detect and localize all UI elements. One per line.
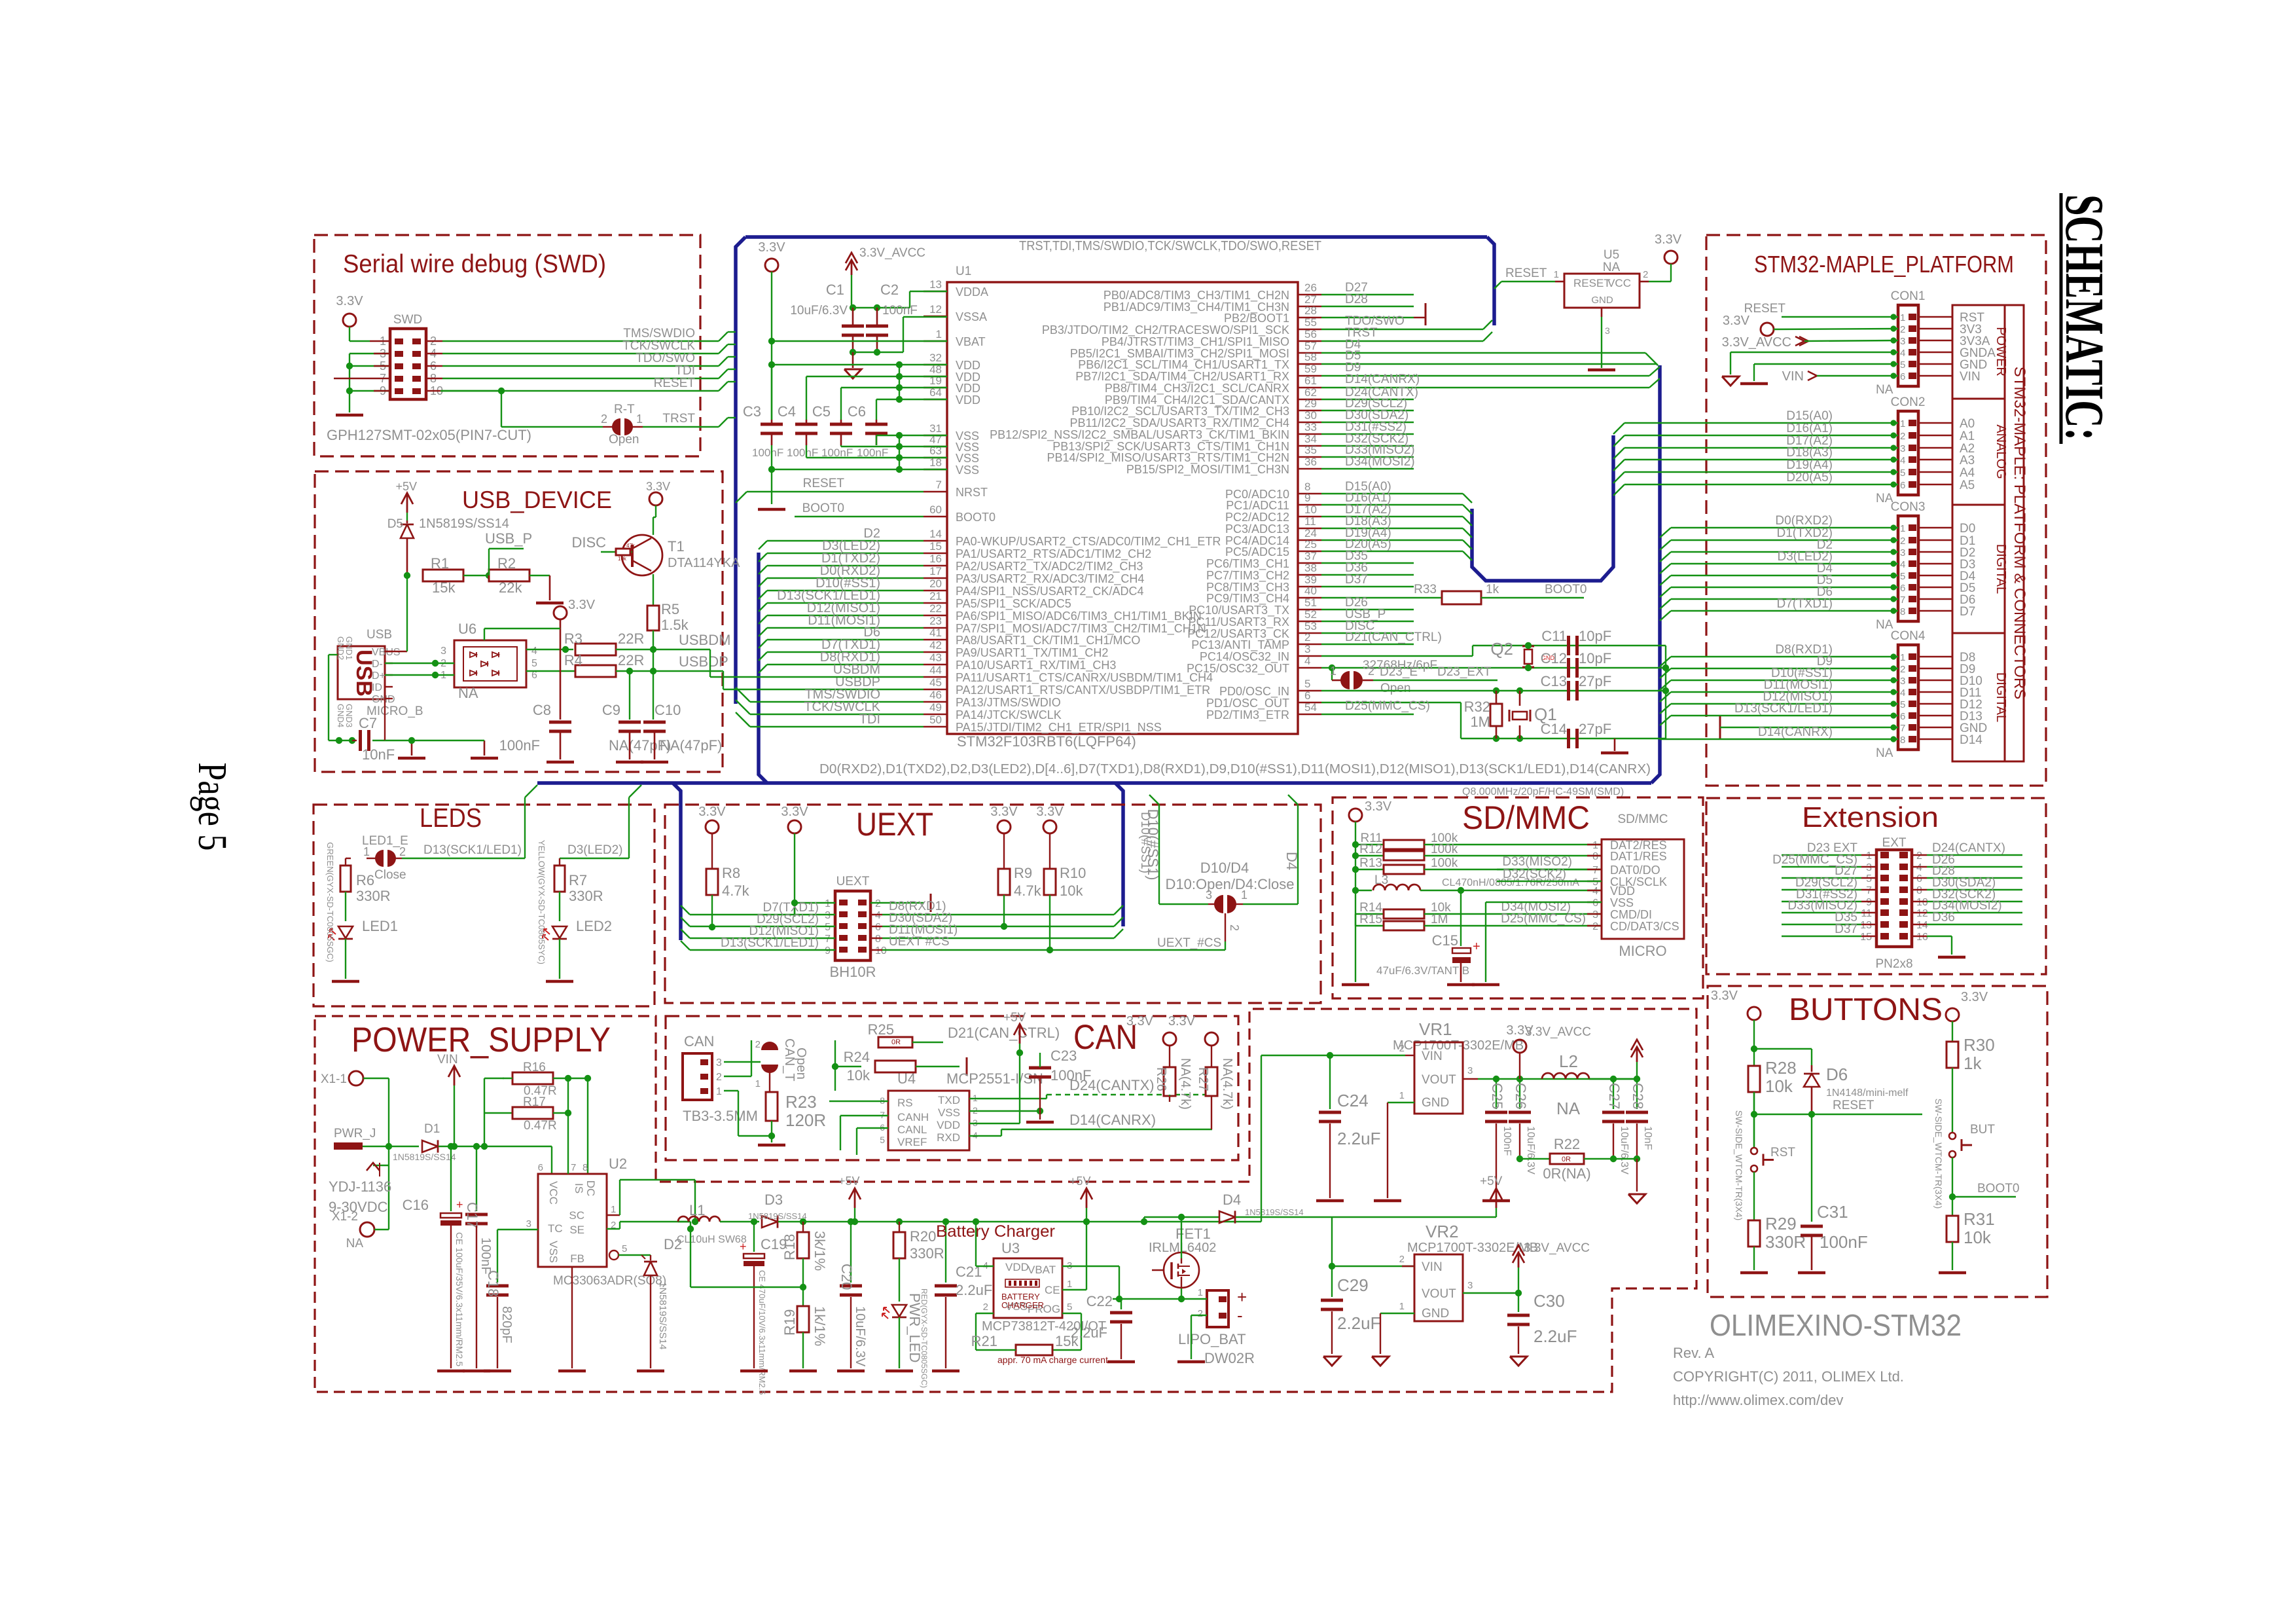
- svg-text:Open: Open: [794, 1048, 808, 1080]
- svg-text:50: 50: [929, 714, 942, 726]
- svg-text:VIN: VIN: [1422, 1049, 1443, 1063]
- svg-text:-: -: [1237, 1305, 1243, 1325]
- svg-text:DISC: DISC: [571, 534, 606, 551]
- svg-text:13: 13: [1860, 920, 1872, 931]
- svg-text:VOUT: VOUT: [1422, 1073, 1456, 1087]
- svg-text:2.2uF: 2.2uF: [956, 1282, 992, 1298]
- svg-text:4: 4: [1900, 455, 1905, 466]
- svg-text:8: 8: [875, 934, 881, 945]
- svg-text:GND2: GND2: [336, 636, 346, 660]
- svg-text:9: 9: [1866, 897, 1872, 908]
- svg-text:10uF/6.3V: 10uF/6.3V: [853, 1306, 867, 1367]
- svg-text:100nF: 100nF: [752, 447, 783, 459]
- svg-text:7: 7: [1900, 723, 1905, 734]
- svg-text:10nF: 10nF: [362, 746, 395, 763]
- svg-text:EXT: EXT: [1882, 836, 1907, 850]
- svg-text:PA6/SPI1_MISO/ADC6/TIM3_CH1/TI: PA6/SPI1_MISO/ADC6/TIM3_CH1/TIM1_BKIN: [956, 610, 1202, 623]
- svg-text:6: 6: [1900, 711, 1905, 722]
- svg-text:DW02R: DW02R: [1204, 1350, 1255, 1366]
- svg-text:BOOT0: BOOT0: [1545, 583, 1587, 596]
- svg-text:PA15/JTDI/TIM2_CH1_ETR/SPI1_NS: PA15/JTDI/TIM2_CH1_ETR/SPI1_NSS: [956, 721, 1162, 735]
- svg-text:Page 5: Page 5: [190, 763, 234, 851]
- svg-text:TDI: TDI: [675, 364, 695, 378]
- svg-text:VDD: VDD: [937, 1119, 960, 1131]
- svg-text:2.2uF: 2.2uF: [1337, 1313, 1381, 1333]
- svg-text:8: 8: [1900, 606, 1905, 617]
- svg-text:U2: U2: [609, 1156, 627, 1172]
- svg-text:PB2/BOOT1: PB2/BOOT1: [1224, 312, 1289, 325]
- svg-text:TMS/SWDIO: TMS/SWDIO: [623, 327, 695, 340]
- svg-text:100nF: 100nF: [499, 737, 540, 754]
- svg-text:VREF: VREF: [897, 1136, 927, 1148]
- svg-text:3: 3: [1304, 643, 1310, 655]
- svg-text:A0: A0: [1960, 417, 1975, 431]
- svg-text:CE: CE: [1045, 1284, 1060, 1296]
- svg-text:10k: 10k: [847, 1067, 870, 1084]
- svg-text:3.3V_AVCC: 3.3V_AVCC: [1525, 1025, 1591, 1039]
- svg-text:2: 2: [1228, 924, 1241, 931]
- svg-text:13: 13: [929, 278, 942, 291]
- svg-text:47k: 47k: [626, 543, 636, 549]
- svg-text:OLIMEXINO-STM32: OLIMEXINO-STM32: [1710, 1308, 1962, 1342]
- svg-text:4: 4: [875, 910, 881, 921]
- svg-text:U4: U4: [897, 1070, 916, 1087]
- svg-text:3.3V: 3.3V: [990, 805, 1018, 819]
- svg-text:32: 32: [929, 352, 942, 364]
- svg-text:1: 1: [825, 898, 831, 909]
- svg-text:VDD: VDD: [956, 393, 980, 407]
- svg-text:D37: D37: [1345, 573, 1368, 587]
- svg-text:29: 29: [1304, 397, 1317, 410]
- svg-text:5: 5: [1304, 678, 1310, 690]
- svg-text:D10:Open/D4:Close: D10:Open/D4:Close: [1166, 876, 1295, 892]
- svg-text:DIGITAL: DIGITAL: [1994, 544, 2008, 594]
- svg-text:VSS: VSS: [956, 464, 979, 477]
- svg-text:1: 1: [755, 1078, 761, 1089]
- svg-text:1M: 1M: [1470, 714, 1490, 730]
- svg-text:10pF: 10pF: [1579, 628, 1611, 644]
- svg-text:D37: D37: [1835, 922, 1857, 936]
- svg-text:SC: SC: [569, 1209, 584, 1222]
- svg-text:5: 5: [880, 1135, 885, 1145]
- svg-text:D16(A1): D16(A1): [1786, 422, 1833, 435]
- svg-text:NRST: NRST: [956, 486, 988, 499]
- svg-text:3: 3: [440, 646, 446, 657]
- svg-text:10: 10: [1916, 897, 1928, 908]
- svg-text:100nF: 100nF: [882, 304, 918, 318]
- svg-text:4: 4: [1304, 655, 1310, 667]
- svg-text:4.7k: 4.7k: [722, 883, 750, 899]
- svg-text:TC: TC: [548, 1222, 563, 1235]
- svg-text:RESET: RESET: [1505, 266, 1547, 280]
- svg-text:A5: A5: [1960, 479, 1975, 492]
- svg-text:PA2/USART2_TX/ADC2/TIM2_CH3: PA2/USART2_TX/ADC2/TIM2_CH3: [956, 560, 1143, 574]
- svg-text:R33: R33: [1414, 583, 1437, 596]
- svg-text:3.3V_AVCC: 3.3V_AVCC: [859, 246, 925, 260]
- svg-text:VCC: VCC: [1607, 277, 1631, 289]
- svg-text:2: 2: [716, 1072, 722, 1083]
- svg-text:43: 43: [929, 651, 942, 664]
- svg-text:52: 52: [1304, 608, 1317, 621]
- svg-text:LED2: LED2: [576, 918, 612, 934]
- svg-text:C4: C4: [778, 403, 796, 420]
- svg-text:STM32-MAPLE_PLATFORM: STM32-MAPLE_PLATFORM: [1754, 251, 2014, 278]
- svg-text:7: 7: [825, 934, 831, 945]
- svg-text:3: 3: [1605, 325, 1610, 336]
- svg-text:16: 16: [1916, 932, 1928, 943]
- svg-text:VCC: VCC: [547, 1181, 560, 1205]
- svg-text:RESET: RESET: [1833, 1099, 1874, 1112]
- svg-text:DTA114YKA: DTA114YKA: [668, 556, 740, 570]
- svg-text:C10: C10: [655, 702, 681, 718]
- svg-text:D32(SCK2): D32(SCK2): [1503, 867, 1566, 881]
- svg-text:PA13/JTMS/SWDIO: PA13/JTMS/SWDIO: [956, 696, 1061, 709]
- svg-text:120R: 120R: [785, 1110, 826, 1130]
- svg-text:4: 4: [1900, 687, 1905, 699]
- svg-text:A1: A1: [1960, 429, 1975, 443]
- svg-text:3.3V: 3.3V: [1365, 799, 1392, 814]
- svg-text:A3: A3: [1960, 454, 1975, 467]
- svg-text:D25(MMC_CS): D25(MMC_CS): [1501, 912, 1586, 926]
- svg-text:PC2/ADC12: PC2/ADC12: [1225, 511, 1289, 524]
- svg-text:D13(SCK1/LED1): D13(SCK1/LED1): [721, 936, 819, 950]
- svg-text:8: 8: [1916, 885, 1922, 896]
- svg-text:10uF/6.3V: 10uF/6.3V: [790, 304, 848, 318]
- svg-text:32768Hz/6pF: 32768Hz/6pF: [1363, 659, 1437, 672]
- svg-text:20: 20: [929, 577, 942, 590]
- svg-text:7: 7: [936, 479, 942, 491]
- svg-text:45: 45: [929, 676, 942, 689]
- svg-text:CANL: CANL: [897, 1123, 927, 1136]
- svg-text:10pF: 10pF: [1579, 650, 1611, 666]
- svg-text:C6: C6: [848, 403, 866, 420]
- svg-text:1: 1: [936, 328, 942, 340]
- svg-text:DIGITAL: DIGITAL: [1994, 672, 2008, 722]
- svg-text:R21: R21: [971, 1333, 997, 1349]
- svg-text:SD/MMC: SD/MMC: [1462, 799, 1590, 836]
- svg-text:D1: D1: [424, 1122, 440, 1136]
- svg-text:R2: R2: [497, 555, 516, 572]
- svg-text:D13(SCK1/LED1): D13(SCK1/LED1): [423, 843, 522, 857]
- svg-text:58: 58: [1304, 351, 1317, 363]
- svg-text:NA: NA: [1556, 1099, 1581, 1118]
- svg-text:51: 51: [1304, 596, 1317, 609]
- svg-text:D19(A4): D19(A4): [1786, 458, 1833, 472]
- svg-text:4: 4: [1916, 862, 1922, 873]
- svg-text:D28: D28: [1345, 293, 1368, 306]
- svg-text:1k: 1k: [1486, 583, 1499, 596]
- svg-text:USB: USB: [367, 628, 392, 642]
- svg-text:PC5/ADC15: PC5/ADC15: [1225, 545, 1289, 558]
- svg-text:PD2/TIM3_ETR: PD2/TIM3_ETR: [1206, 708, 1289, 722]
- svg-text:X1-1: X1-1: [321, 1072, 347, 1086]
- svg-text:1N5819S/SS14: 1N5819S/SS14: [1245, 1207, 1304, 1217]
- svg-text:54: 54: [1304, 701, 1317, 714]
- svg-text:A4: A4: [1960, 466, 1975, 480]
- svg-text:2: 2: [1399, 1254, 1405, 1265]
- svg-text:330R: 330R: [910, 1245, 944, 1262]
- svg-text:100nF: 100nF: [1501, 1126, 1513, 1156]
- svg-text:4: 4: [1900, 348, 1905, 359]
- svg-text:CHARGER: CHARGER: [1001, 1300, 1044, 1310]
- svg-text:SD/MMC: SD/MMC: [1617, 812, 1668, 826]
- svg-text:C7: C7: [359, 715, 377, 731]
- svg-text:6: 6: [875, 922, 881, 933]
- svg-text:GND: GND: [372, 694, 395, 705]
- svg-text:60: 60: [929, 503, 942, 516]
- svg-text:3.3V_AVCC: 3.3V_AVCC: [1524, 1241, 1590, 1255]
- svg-text:2: 2: [1900, 536, 1905, 547]
- svg-text:R30: R30: [1964, 1035, 1995, 1055]
- svg-text:TRST,TDI,TMS/SWDIO,TCK/SWCLK,T: TRST,TDI,TMS/SWDIO,TCK/SWCLK,TDO/SWO,RES…: [1019, 239, 1321, 253]
- svg-text:VIN: VIN: [437, 1053, 458, 1067]
- svg-text:U3: U3: [1001, 1240, 1020, 1256]
- svg-text:100nF: 100nF: [1050, 1067, 1091, 1084]
- svg-text:17: 17: [929, 565, 942, 577]
- svg-text:PA14/JTCK/SWCLK: PA14/JTCK/SWCLK: [956, 708, 1062, 721]
- svg-text:2: 2: [755, 1039, 761, 1050]
- svg-text:LIPO_BAT: LIPO_BAT: [1178, 1331, 1246, 1347]
- svg-text:+5V: +5V: [838, 1175, 860, 1188]
- svg-text:3.3V: 3.3V: [698, 805, 726, 819]
- svg-text:DAT1/RES: DAT1/RES: [1610, 850, 1667, 863]
- svg-text:STM32-MAPLE: PLATFORM & CONNEC: STM32-MAPLE: PLATFORM & CONNECTORS: [2011, 367, 2028, 700]
- svg-text:41: 41: [929, 627, 942, 639]
- svg-text:3.3V: 3.3V: [1711, 989, 1738, 1003]
- svg-text:R-T: R-T: [614, 403, 635, 416]
- svg-text:1: 1: [1900, 652, 1905, 663]
- svg-text:14: 14: [1916, 920, 1928, 931]
- svg-text:http://www.olimex.com/dev: http://www.olimex.com/dev: [1673, 1392, 1843, 1408]
- svg-text:3.3V: 3.3V: [336, 294, 363, 308]
- svg-text:1: 1: [1900, 312, 1905, 323]
- svg-text:C5: C5: [812, 403, 831, 420]
- svg-text:C20: C20: [838, 1264, 855, 1290]
- svg-text:C18: C18: [485, 1270, 501, 1296]
- svg-text:R12: R12: [1359, 843, 1382, 856]
- svg-text:+: +: [456, 1198, 463, 1211]
- svg-text:C11: C11: [1541, 628, 1567, 644]
- svg-text:R28: R28: [1765, 1058, 1797, 1078]
- svg-text:+: +: [1237, 1287, 1247, 1307]
- svg-text:CANH: CANH: [897, 1111, 929, 1123]
- svg-text:1k: 1k: [1964, 1053, 1982, 1073]
- svg-text:2: 2: [1399, 1043, 1405, 1054]
- svg-text:Extension: Extension: [1802, 801, 1939, 833]
- svg-text:VDD: VDD: [956, 359, 980, 372]
- svg-text:DC: DC: [584, 1180, 597, 1197]
- svg-text:NA: NA: [1603, 261, 1621, 274]
- svg-text:1: 1: [1866, 850, 1872, 862]
- svg-text:1: 1: [611, 1204, 616, 1215]
- svg-text:PC1/ADC11: PC1/ADC11: [1226, 499, 1289, 512]
- svg-text:NA(4.7k): NA(4.7k): [1220, 1058, 1234, 1110]
- svg-text:15: 15: [929, 540, 942, 553]
- svg-text:NA: NA: [1876, 746, 1893, 760]
- svg-text:6: 6: [1592, 898, 1598, 909]
- svg-text:1: 1: [1900, 418, 1905, 429]
- svg-text:D5: D5: [387, 517, 403, 531]
- svg-text:CAN: CAN: [684, 1033, 714, 1049]
- svg-text:VSSA: VSSA: [956, 310, 987, 323]
- svg-text:L3: L3: [1374, 873, 1388, 887]
- svg-text:30: 30: [1304, 409, 1317, 422]
- svg-text:IS: IS: [573, 1183, 585, 1194]
- svg-text:Close: Close: [374, 868, 406, 882]
- svg-text:R26: R26: [1154, 1067, 1168, 1091]
- svg-text:D10/D4: D10/D4: [1200, 860, 1249, 876]
- svg-text:3: 3: [1467, 1065, 1473, 1076]
- svg-text:GREEN(GYX-SD-TC0805SGC): GREEN(GYX-SD-TC0805SGC): [325, 842, 335, 962]
- svg-text:VDD: VDD: [956, 382, 980, 395]
- svg-text:R8: R8: [722, 865, 740, 881]
- svg-text:2: 2: [1900, 324, 1905, 335]
- svg-text:9: 9: [1304, 492, 1310, 504]
- svg-text:330R: 330R: [569, 888, 603, 904]
- svg-text:23: 23: [929, 615, 942, 627]
- svg-text:D7: D7: [1960, 605, 1975, 619]
- svg-text:R24: R24: [844, 1049, 870, 1065]
- svg-text:VSS: VSS: [547, 1241, 560, 1263]
- svg-text:3k/1%: 3k/1%: [812, 1231, 828, 1271]
- svg-text:D21(CAN_CTRL): D21(CAN_CTRL): [1345, 630, 1442, 644]
- svg-text:R29: R29: [1765, 1214, 1797, 1233]
- svg-text:VBAT: VBAT: [1028, 1264, 1056, 1276]
- svg-text:8: 8: [1900, 735, 1905, 746]
- svg-text:R9: R9: [1014, 865, 1032, 881]
- svg-text:BOOT0: BOOT0: [956, 511, 996, 524]
- svg-text:L2: L2: [1559, 1051, 1578, 1071]
- svg-text:0.47R: 0.47R: [524, 1119, 557, 1133]
- svg-text:1N5819S/SS14: 1N5819S/SS14: [748, 1211, 807, 1221]
- svg-text:PA4/SPI1_NSS/USART2_CK/ADC4: PA4/SPI1_NSS/USART2_CK/ADC4: [956, 585, 1143, 598]
- svg-text:D34(MOSI2): D34(MOSI2): [1345, 455, 1415, 469]
- svg-text:RST: RST: [1770, 1146, 1795, 1159]
- svg-text:ANALOG: ANALOG: [1994, 424, 2008, 479]
- svg-text:D23_EXT: D23_EXT: [1437, 665, 1492, 679]
- svg-text:appr. 70 mA charge current: appr. 70 mA charge current: [997, 1355, 1108, 1365]
- svg-text:USB_P: USB_P: [485, 530, 532, 547]
- svg-text:VIN: VIN: [1960, 370, 1981, 384]
- svg-text:38: 38: [1304, 562, 1317, 574]
- svg-text:RS: RS: [897, 1097, 913, 1109]
- svg-text:VR1: VR1: [1419, 1019, 1452, 1039]
- svg-text:L1: L1: [689, 1202, 705, 1218]
- svg-text:PA3/USART2_RX/ADC3/TIM2_CH4: PA3/USART2_RX/ADC3/TIM2_CH4: [956, 572, 1144, 586]
- svg-text:16: 16: [929, 553, 942, 565]
- svg-text:VBAT: VBAT: [956, 335, 986, 348]
- svg-text:100nF: 100nF: [478, 1237, 493, 1275]
- svg-text:12: 12: [929, 303, 942, 316]
- svg-text:VOUT: VOUT: [1422, 1287, 1456, 1301]
- svg-text:SCHEMATIC:: SCHEMATIC:: [2054, 194, 2115, 441]
- svg-text:VSS: VSS: [938, 1106, 960, 1119]
- svg-text:100k: 100k: [1431, 856, 1458, 870]
- svg-text:C27: C27: [1606, 1083, 1623, 1109]
- svg-text:C30: C30: [1534, 1291, 1565, 1311]
- svg-text:RESET: RESET: [1744, 302, 1786, 316]
- svg-text:PA10/USART1_RX/TIM1_CH3: PA10/USART1_RX/TIM1_CH3: [956, 659, 1116, 672]
- svg-text:SW-SIDE_WTCM-TR(3X4): SW-SIDE_WTCM-TR(3X4): [1734, 1110, 1744, 1221]
- svg-text:GND4: GND4: [336, 704, 346, 727]
- svg-text:2: 2: [1643, 269, 1648, 280]
- svg-text:7: 7: [1592, 865, 1598, 876]
- svg-text:2: 2: [601, 412, 607, 426]
- svg-text:4.7k: 4.7k: [1014, 883, 1042, 899]
- svg-text:CON3: CON3: [1891, 500, 1926, 514]
- svg-text:NA(47pF): NA(47pF): [660, 737, 722, 754]
- svg-text:D7(TXD1): D7(TXD1): [1776, 597, 1833, 611]
- svg-text:D10(#SS1): D10(#SS1): [1145, 809, 1161, 881]
- svg-text:5: 5: [825, 922, 831, 933]
- svg-text:3.3V: 3.3V: [646, 480, 670, 493]
- svg-text:TDO/SWO: TDO/SWO: [636, 352, 695, 365]
- svg-text:DAT0/DO: DAT0/DO: [1610, 864, 1660, 877]
- svg-text:C25: C25: [1489, 1083, 1505, 1109]
- svg-text:1: 1: [1554, 269, 1559, 280]
- svg-text:7: 7: [571, 1162, 576, 1173]
- svg-text:5: 5: [1900, 359, 1905, 371]
- svg-text:CE 100uF/35V/6.3x11mm/RM2.5: CE 100uF/35V/6.3x11mm/RM2.5: [454, 1232, 465, 1366]
- svg-text:BOOT0: BOOT0: [802, 501, 844, 515]
- svg-text:NA: NA: [458, 685, 478, 701]
- svg-text:D21(CAN_CTRL): D21(CAN_CTRL): [948, 1025, 1060, 1041]
- svg-text:1: 1: [363, 845, 370, 858]
- svg-text:12: 12: [1916, 908, 1928, 919]
- svg-text:BUTTONS: BUTTONS: [1789, 993, 1943, 1027]
- svg-text:R22: R22: [1554, 1136, 1580, 1152]
- svg-text:VSS: VSS: [956, 452, 979, 465]
- svg-text:44: 44: [929, 664, 942, 676]
- svg-text:CD/DAT3/CS: CD/DAT3/CS: [1610, 920, 1679, 933]
- svg-text:Q2: Q2: [1490, 639, 1513, 659]
- svg-text:D36: D36: [1932, 911, 1955, 924]
- svg-text:YELLOW(GYX-SD-TC0805SYC): YELLOW(GYX-SD-TC0805SYC): [537, 840, 547, 964]
- svg-text:0R: 0R: [891, 1038, 901, 1046]
- svg-text:BOOT0: BOOT0: [1977, 1182, 2019, 1195]
- svg-text:C3: C3: [743, 403, 761, 420]
- svg-text:3.3V: 3.3V: [1126, 1014, 1154, 1029]
- svg-text:3: 3: [526, 1218, 531, 1230]
- svg-text:5: 5: [1900, 699, 1905, 710]
- svg-text:59: 59: [1304, 363, 1317, 375]
- svg-text:VDD: VDD: [1005, 1261, 1029, 1273]
- svg-text:22k: 22k: [499, 579, 522, 596]
- svg-text:GND: GND: [1422, 1307, 1449, 1321]
- svg-text:R6: R6: [356, 872, 374, 888]
- svg-text:D0: D0: [1960, 522, 1975, 536]
- svg-text:VIN: VIN: [1422, 1260, 1443, 1274]
- svg-text:SWD: SWD: [393, 313, 422, 327]
- svg-text:11: 11: [1861, 908, 1872, 919]
- svg-text:2: 2: [983, 1302, 988, 1313]
- svg-text:7: 7: [1866, 885, 1872, 896]
- svg-text:CL10uH SW68: CL10uH SW68: [677, 1234, 747, 1245]
- svg-text:820pF: 820pF: [499, 1306, 514, 1343]
- svg-text:SE: SE: [569, 1224, 584, 1236]
- svg-text:22: 22: [929, 602, 942, 615]
- svg-text:R17: R17: [523, 1095, 546, 1109]
- svg-text:PB15/SPI2_MOSI/TIM1_CH3N: PB15/SPI2_MOSI/TIM1_CH3N: [1126, 463, 1289, 477]
- svg-text:1N5819S/SS14: 1N5819S/SS14: [393, 1152, 456, 1162]
- svg-text:10k: 10k: [1765, 1076, 1793, 1096]
- svg-text:Battery Charger: Battery Charger: [936, 1222, 1055, 1241]
- svg-text:R5: R5: [661, 601, 679, 617]
- svg-text:1: 1: [1399, 1090, 1405, 1101]
- svg-text:C29: C29: [1337, 1275, 1369, 1295]
- svg-text:RED(GYX-SD-TC0805SGC): RED(GYX-SD-TC0805SGC): [920, 1288, 929, 1388]
- svg-text:PWR_J: PWR_J: [334, 1127, 376, 1140]
